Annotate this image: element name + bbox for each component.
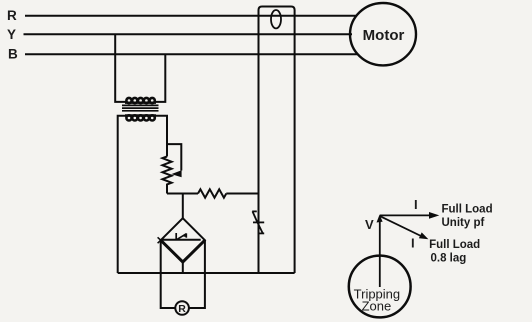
thyristor D1 on CT lead [252,211,264,233]
wire transformer primary right lead from B [155,54,166,102]
phasor I lag arrowhead [419,232,429,239]
svg-text:B: B [8,46,18,61]
svg-text:Full Load: Full Load [442,204,493,216]
svg-text:Y: Y [7,27,16,42]
wire line R [25,15,357,17]
relay element inner bar [162,239,201,241]
relay moving contact symbol [176,233,186,240]
transformer T1 primary winding [126,98,154,103]
rectifier bridge rectifier-relay diamond [161,218,205,262]
transformer T1 core [122,105,159,110]
transformer T1 secondary winding [126,115,154,120]
wire relay coil left lead [161,240,175,308]
wire transformer primary left lead from Y [115,34,126,102]
wire secondary left lead down to bottom bus [118,116,127,273]
svg-text:R: R [178,303,186,315]
tripping zone circle [349,256,411,318]
phasor I unity arrowhead [429,212,439,219]
transformer T1 primary winding baseline [125,101,156,103]
rheostat RV1 element [162,157,171,194]
wire line B [25,53,358,55]
motor M1 [350,3,416,65]
svg-text:Unity pf: Unity pf [442,217,485,229]
phasor V line [379,217,381,287]
current transformer CT1 primary loop [271,10,281,28]
wire line Y [24,33,353,35]
wire relay coil right lead [189,240,205,308]
svg-text:V: V [365,217,374,232]
wire secondary right lead down to rheostat [155,116,168,157]
rheostat RV1 wiper arrow [171,170,181,177]
svg-text:I: I [414,197,418,212]
phasor I unity line [380,214,431,216]
transformer T1 secondary winding baseline [125,114,156,116]
svg-text:I: I [411,236,415,251]
current transformer CT1 secondary leads [259,7,295,274]
wire bottom bus [118,272,295,274]
svg-text:0.8 lag: 0.8 lag [431,252,467,264]
resistor R2 [198,189,226,197]
wire rheostat wiper branch [167,144,181,170]
svg-text:Zone: Zone [362,299,392,314]
svg-text:R: R [7,8,17,23]
phasor I lag line [380,216,421,236]
wire bridge bottom vertex to bus [182,262,184,274]
phasor V arrowhead [377,215,383,223]
svg-text:Full Load: Full Load [429,239,480,251]
wire junction down to bridge top [182,194,184,219]
wire from resistor R2 to CT lead [226,193,258,195]
relay coil R [175,301,189,315]
junction cross at bridge left vertex [158,237,164,243]
wire from rheostat bottom to resistor R2 [167,193,198,195]
svg-text:Motor: Motor [363,27,405,44]
